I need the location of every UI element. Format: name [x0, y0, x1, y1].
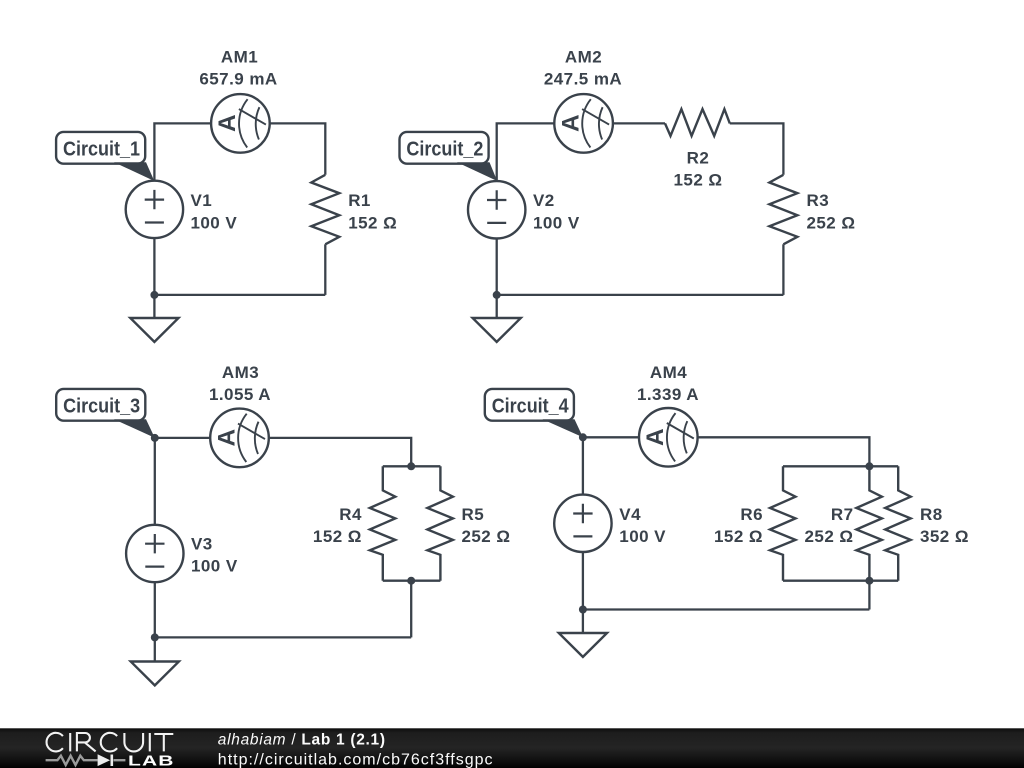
svg-text:R4: R4	[339, 505, 362, 524]
wire bottom rail circuit 2	[497, 294, 784, 296]
svg-text:152 Ω: 152 Ω	[674, 171, 723, 190]
resistor R3	[769, 175, 797, 245]
junction: circuit 4 input node	[579, 433, 587, 441]
wire V2+ to AM2 left	[497, 123, 555, 181]
wire AM4 right to parallel top	[698, 437, 870, 466]
svg-text:R1: R1	[348, 191, 371, 210]
svg-text:V1: V1	[191, 191, 213, 210]
ammeter AM1	[211, 94, 270, 153]
wire AM3 right to parallel top	[269, 438, 411, 466]
CircuitLab logo wordmark CIRCUIT (hand-drawn thin letters)	[47, 733, 174, 752]
svg-text:http://circuitlab.com/cb76cf3f: http://circuitlab.com/cb76cf3ffsgpc	[218, 752, 494, 768]
svg-text:100 V: 100 V	[191, 213, 238, 232]
svg-text:247.5 mA: 247.5 mA	[544, 70, 622, 89]
wire AM2 right to R2 left	[613, 122, 665, 124]
footer bar background	[0, 728, 1024, 768]
svg-text:R5: R5	[462, 505, 485, 524]
wire R3 bottom to bottom rail	[782, 244, 784, 295]
voltage source V1	[126, 181, 183, 238]
svg-text:252 Ω: 252 Ω	[805, 527, 854, 546]
svg-text:252 Ω: 252 Ω	[462, 527, 511, 546]
net label Circuit_3 pointer tail	[114, 419, 155, 438]
CircuitLab logo resistor squiggle	[46, 756, 126, 765]
wire R1 bottom to bottom rail	[324, 244, 326, 295]
svg-text:V2: V2	[533, 191, 555, 210]
net label Circuit_4 pointer tail	[543, 419, 583, 437]
wire node to V3+	[154, 438, 156, 525]
junction: parallel top node circuit 3	[407, 462, 415, 470]
resistor R7	[856, 466, 882, 580]
resistor R5	[427, 466, 453, 580]
svg-text:657.9 mA: 657.9 mA	[199, 70, 277, 89]
ammeter AM2	[554, 94, 613, 153]
wire parallel top bar circuit 4	[783, 465, 898, 467]
wire V4- to bottom rail	[582, 552, 584, 610]
svg-text:R6: R6	[740, 505, 763, 524]
svg-text:A: A	[213, 429, 240, 447]
resistor R8	[885, 466, 911, 580]
wire bottom rail circuit 1	[154, 294, 325, 296]
svg-text:R7: R7	[831, 505, 854, 524]
wire parallel bottom to bottom rail	[868, 581, 870, 610]
ammeter AM3	[210, 409, 269, 468]
wire R2 right to R3 top	[730, 123, 784, 174]
svg-text:100 V: 100 V	[191, 557, 238, 576]
wire V1+ to AM1 left	[154, 123, 211, 181]
svg-text:R3: R3	[807, 191, 830, 210]
svg-text:AM4: AM4	[650, 363, 687, 382]
resistor R6	[770, 466, 796, 580]
svg-text:1.339 A: 1.339 A	[637, 385, 699, 404]
ground circuit 3	[131, 662, 179, 686]
ground circuit 1	[130, 318, 178, 342]
svg-text:Circuit_3: Circuit_3	[63, 396, 140, 418]
ground circuit 2	[473, 318, 521, 342]
svg-text:100 V: 100 V	[533, 213, 580, 232]
junction: V2- / ground node	[493, 291, 501, 299]
junction: V1- / ground node	[150, 291, 158, 299]
wire ground stem circuit 2	[496, 295, 498, 318]
junction: V3- / ground node	[151, 633, 159, 641]
wire V1- to bottom rail	[153, 238, 155, 295]
svg-text:152 Ω: 152 Ω	[313, 527, 362, 546]
wire ground stem circuit 1	[153, 295, 155, 318]
ground circuit 4	[559, 633, 607, 657]
svg-text:252 Ω: 252 Ω	[807, 213, 856, 232]
net label Circuit_3 (callout box)	[56, 389, 145, 421]
svg-text:V4: V4	[619, 505, 641, 524]
voltage source V4	[554, 495, 611, 552]
svg-text:Circuit_1: Circuit_1	[63, 139, 140, 161]
wire AM1 right to R1 top	[270, 123, 326, 174]
svg-text:1.055 A: 1.055 A	[209, 385, 271, 404]
wire node to V4+	[582, 437, 584, 494]
resistor R1	[311, 175, 339, 245]
wire parallel bottom to bottom rail	[410, 581, 412, 638]
svg-text:AM2: AM2	[565, 47, 602, 66]
resistor R2 (horizontal)	[665, 109, 730, 136]
wire parallel bottom bar circuit 4	[783, 580, 898, 582]
svg-text:352 Ω: 352 Ω	[920, 527, 969, 546]
svg-text:Circuit_4: Circuit_4	[492, 396, 570, 418]
svg-text:152 Ω: 152 Ω	[348, 213, 397, 232]
wire parallel bottom bar circuit 3	[383, 580, 441, 582]
svg-text:LAB: LAB	[128, 752, 174, 768]
svg-text:A: A	[214, 114, 241, 132]
wire node to AM3 left	[155, 437, 210, 439]
wire ground stem circuit 3	[154, 637, 156, 661]
svg-text:alhabiam / Lab 1 (2.1): alhabiam / Lab 1 (2.1)	[218, 731, 386, 748]
wire V2- to bottom rail	[496, 239, 498, 295]
wire V3- to bottom rail	[154, 582, 156, 637]
svg-text:A: A	[557, 114, 584, 132]
junction: V4- / ground node	[579, 606, 587, 614]
svg-text:Circuit_2: Circuit_2	[406, 139, 483, 161]
junction: parallel top node circuit 4	[865, 462, 873, 470]
svg-text:V3: V3	[191, 534, 213, 553]
svg-text:AM1: AM1	[221, 47, 258, 66]
CircuitLab logo diode symbol	[98, 754, 112, 766]
net label Circuit_1 pointer tail	[114, 162, 154, 181]
junction: parallel bottom node circuit 4	[865, 577, 873, 585]
svg-text:AM3: AM3	[222, 363, 259, 382]
net label Circuit_2 pointer tail	[457, 162, 497, 181]
net label Circuit_4 (callout box)	[485, 389, 574, 421]
wire bottom rail circuit 4	[583, 608, 870, 610]
wire ground stem circuit 4	[582, 610, 584, 634]
svg-text:R2: R2	[687, 149, 710, 168]
junction: circuit 3 input node	[151, 434, 159, 442]
resistor R4	[370, 466, 396, 580]
voltage source V2	[468, 181, 525, 238]
svg-text:152 Ω: 152 Ω	[714, 527, 763, 546]
svg-text:100 V: 100 V	[619, 527, 666, 546]
wire bottom rail circuit 3	[155, 636, 411, 638]
net label Circuit_2 (callout box)	[400, 132, 489, 164]
wire node to AM4 left	[583, 436, 639, 438]
wire parallel top bar circuit 3	[383, 465, 441, 467]
junction: parallel bottom node circuit 3	[407, 577, 415, 585]
ammeter AM4	[639, 408, 698, 467]
voltage source V3	[126, 525, 183, 582]
svg-text:R8: R8	[920, 505, 943, 524]
net label Circuit_1 (callout box)	[56, 132, 145, 164]
svg-text:A: A	[642, 428, 669, 446]
